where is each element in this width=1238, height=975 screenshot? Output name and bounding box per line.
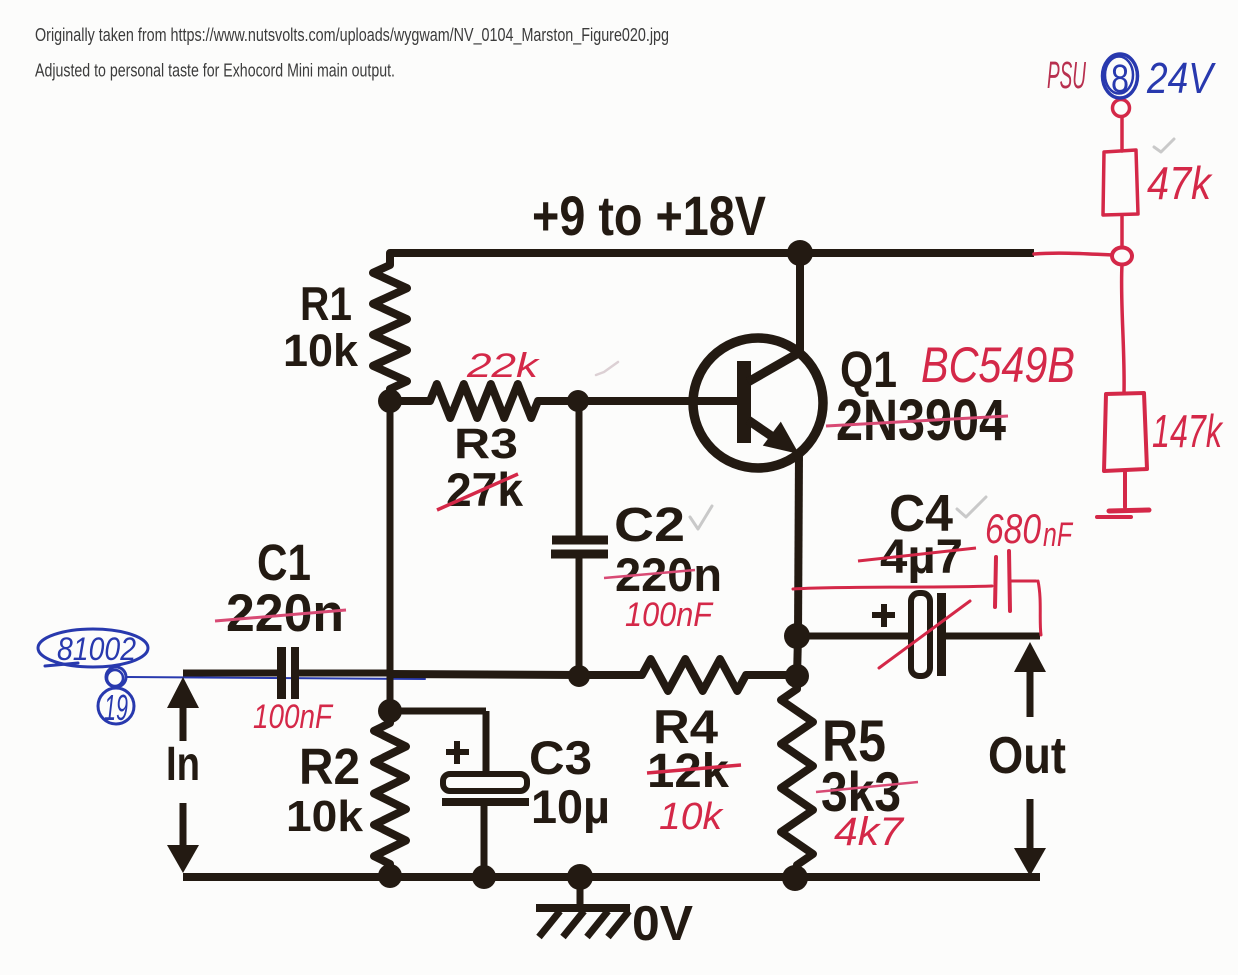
svg-text:10k: 10k bbox=[286, 792, 364, 841]
svg-text:22k: 22k bbox=[466, 347, 541, 385]
svg-text:Originally taken from https://: Originally taken from https://www.nutsvo… bbox=[35, 25, 669, 46]
svg-text:C2: C2 bbox=[614, 499, 685, 552]
svg-text:C1: C1 bbox=[257, 534, 311, 591]
svg-text:R1: R1 bbox=[300, 277, 352, 330]
svg-text:10µ: 10µ bbox=[531, 780, 610, 833]
svg-text:81002: 81002 bbox=[57, 631, 136, 667]
svg-text:8: 8 bbox=[1111, 57, 1129, 101]
svg-text:BC549B: BC549B bbox=[921, 337, 1075, 393]
svg-text:0V: 0V bbox=[632, 897, 693, 951]
svg-text:+9 to +18V: +9 to +18V bbox=[532, 184, 766, 247]
svg-text:In: In bbox=[166, 738, 200, 791]
svg-text:nF: nF bbox=[1043, 516, 1074, 554]
svg-text:R3: R3 bbox=[454, 420, 518, 468]
svg-text:Adjusted to personal taste for: Adjusted to personal taste for Exhocord … bbox=[35, 61, 395, 81]
svg-text:C3: C3 bbox=[529, 731, 592, 784]
svg-text:PSU: PSU bbox=[1047, 55, 1086, 97]
svg-text:Out: Out bbox=[988, 727, 1066, 785]
svg-text:10k: 10k bbox=[659, 796, 724, 838]
svg-text:R2: R2 bbox=[299, 738, 360, 795]
svg-text:100nF: 100nF bbox=[625, 596, 714, 634]
svg-text:47k: 47k bbox=[1147, 157, 1213, 209]
svg-text:680: 680 bbox=[985, 505, 1042, 552]
svg-text:220n: 220n bbox=[226, 584, 344, 643]
svg-text:10k: 10k bbox=[283, 325, 359, 376]
svg-text:24V: 24V bbox=[1146, 54, 1216, 103]
svg-text:4k7: 4k7 bbox=[834, 810, 905, 854]
svg-text:100nF: 100nF bbox=[253, 698, 334, 736]
svg-text:19: 19 bbox=[104, 687, 128, 728]
svg-text:147k: 147k bbox=[1152, 405, 1223, 457]
